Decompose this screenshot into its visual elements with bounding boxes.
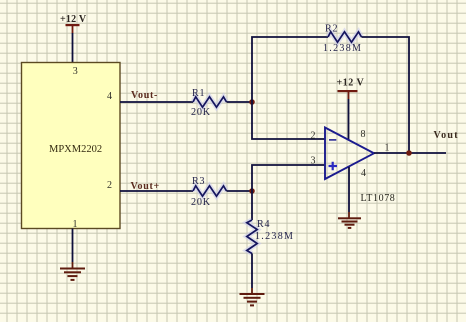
node B <box>249 188 255 194</box>
resistor R3 <box>191 176 227 208</box>
wire feedback top right segment and right vertical <box>362 37 410 153</box>
svg-text:4: 4 <box>361 168 366 179</box>
op-amp LT1078 <box>311 128 396 205</box>
power +12V (op-amp) <box>337 78 365 100</box>
wire R1 to node A <box>227 101 253 103</box>
node A <box>249 99 255 105</box>
node C <box>406 150 412 156</box>
svg-text:2: 2 <box>311 131 316 142</box>
wire node B up to opamp pin 3 <box>252 165 325 191</box>
svg-text:2: 2 <box>107 180 112 191</box>
svg-text:R3: R3 <box>192 176 205 187</box>
svg-text:1: 1 <box>385 143 390 154</box>
svg-text:20K: 20K <box>191 197 211 208</box>
svg-text:1: 1 <box>73 219 78 230</box>
svg-text:8: 8 <box>361 129 366 140</box>
IC MPXM2202 <box>22 63 121 231</box>
svg-text:Vout-: Vout- <box>131 90 158 101</box>
ground (below R4) <box>240 288 265 306</box>
wire R3 to node B <box>227 190 253 192</box>
svg-text:MPXM2202: MPXM2202 <box>49 144 102 155</box>
wire U1 pin2 to R3 <box>120 190 193 192</box>
svg-text:3: 3 <box>311 156 316 167</box>
svg-text:Vout: Vout <box>434 130 459 141</box>
power +12V (left) <box>60 14 87 33</box>
resistor R2 <box>323 24 362 55</box>
wire R4 to ground <box>251 254 253 289</box>
svg-text:R1: R1 <box>192 88 205 99</box>
ground (below op-amp) <box>338 212 361 229</box>
wire opamp output <box>374 152 446 154</box>
wire opamp pin 4 to ground <box>348 167 350 212</box>
wire U1 pin4 to R1 <box>120 101 193 103</box>
svg-text:LT1078: LT1078 <box>361 193 396 204</box>
wire feedback left vertical and top left segment <box>252 37 328 102</box>
svg-text:R2: R2 <box>325 24 338 35</box>
resistor R4 <box>247 219 294 254</box>
wire node A down to opamp pin 2 <box>252 102 325 139</box>
resistor R1 <box>191 88 227 118</box>
svg-text:+12 V: +12 V <box>60 14 87 25</box>
plus sign <box>329 162 338 170</box>
svg-text:Vout+: Vout+ <box>131 181 160 192</box>
wire U1 pin1 to ground <box>72 229 74 263</box>
wire +12V to U1 pin 3 <box>72 33 74 63</box>
svg-text:R4: R4 <box>257 219 270 230</box>
ground (below U1) <box>60 262 85 281</box>
wire +12V to opamp pin 8 <box>348 99 350 140</box>
svg-text:+12 V: +12 V <box>337 78 365 89</box>
svg-text:1.238M: 1.238M <box>255 231 294 242</box>
svg-text:4: 4 <box>107 91 112 102</box>
svg-text:20K: 20K <box>191 107 211 118</box>
svg-text:1.238M: 1.238M <box>323 43 362 54</box>
wire node B down to R4 <box>251 191 253 220</box>
minus sign <box>329 139 336 141</box>
svg-text:3: 3 <box>73 66 78 77</box>
